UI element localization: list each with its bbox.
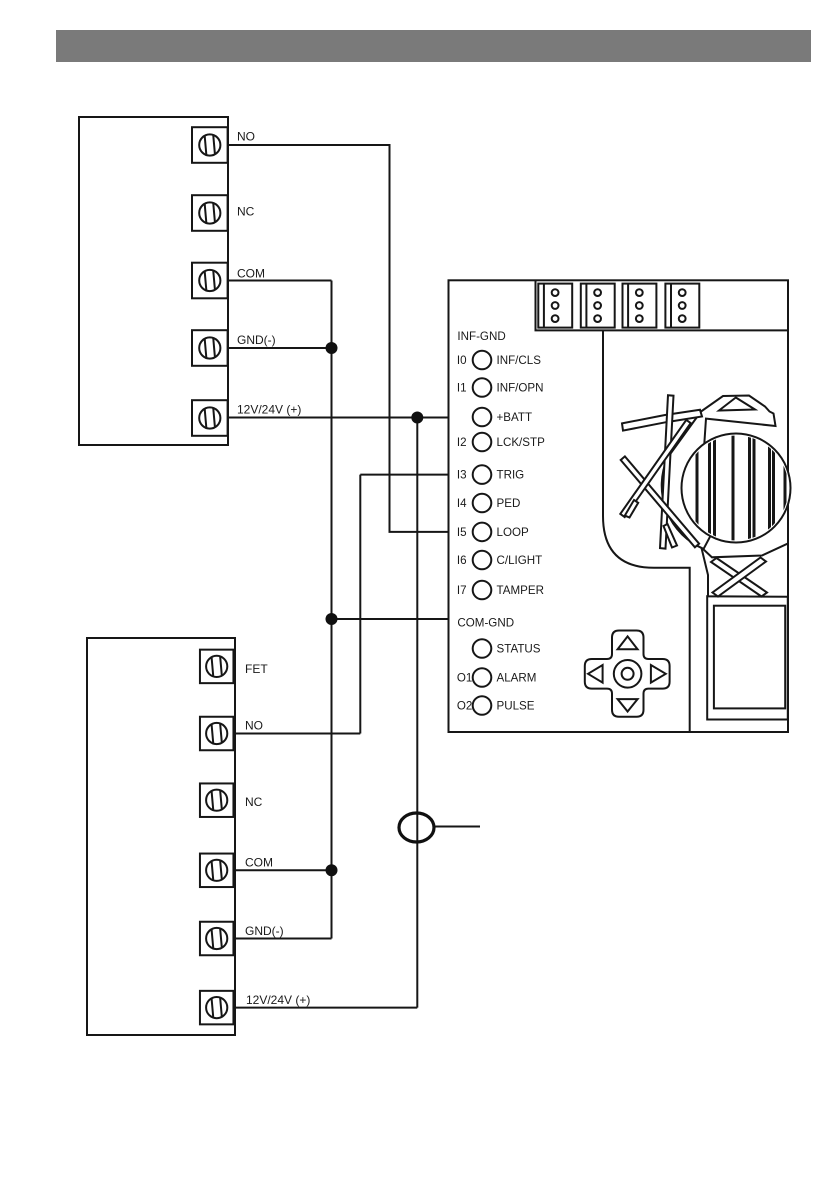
svg-text:12V/24V (+): 12V/24V (+) [246, 993, 310, 1007]
svg-text:I2: I2 [457, 436, 467, 449]
svg-text:I4: I4 [457, 497, 467, 510]
svg-text:COM-GND: COM-GND [457, 617, 514, 630]
svg-text:TAMPER: TAMPER [497, 584, 544, 597]
svg-text:O1: O1 [457, 672, 472, 685]
svg-text:TRIG: TRIG [497, 469, 525, 482]
svg-text:COM: COM [245, 856, 273, 870]
svg-text:I6: I6 [457, 554, 467, 567]
svg-text:C/LIGHT: C/LIGHT [497, 554, 543, 567]
svg-text:I5: I5 [457, 526, 467, 539]
svg-text:LOOP: LOOP [497, 526, 529, 539]
svg-text:GND(-): GND(-) [237, 333, 276, 347]
svg-text:I7: I7 [457, 584, 467, 597]
svg-text:NC: NC [237, 205, 255, 219]
svg-text:+BATT: +BATT [497, 411, 533, 424]
svg-text:NO: NO [237, 130, 255, 144]
svg-text:INF-GND: INF-GND [457, 330, 505, 343]
svg-text:12V/24V (+): 12V/24V (+) [237, 403, 301, 417]
svg-text:PED: PED [497, 497, 521, 510]
svg-text:NO: NO [245, 719, 263, 733]
svg-text:I3: I3 [457, 469, 467, 482]
svg-text:I0: I0 [457, 354, 467, 367]
svg-text:LCK/STP: LCK/STP [497, 436, 546, 449]
svg-text:INF/CLS: INF/CLS [497, 354, 542, 367]
svg-text:NC: NC [245, 795, 263, 809]
svg-text:I1: I1 [457, 382, 467, 395]
svg-text:INF/OPN: INF/OPN [497, 382, 544, 395]
svg-text:COM: COM [237, 267, 265, 281]
svg-text:GND(-): GND(-) [245, 924, 284, 938]
svg-text:PULSE: PULSE [497, 700, 535, 713]
svg-text:ALARM: ALARM [497, 672, 537, 685]
svg-text:O2: O2 [457, 700, 472, 713]
svg-text:FET: FET [245, 662, 268, 676]
svg-text:STATUS: STATUS [497, 643, 541, 656]
